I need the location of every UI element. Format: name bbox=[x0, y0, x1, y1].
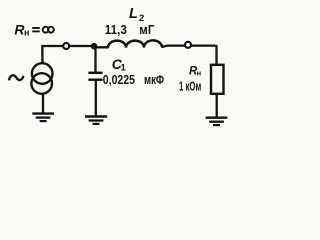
label Rн = ∞ bbox=[14, 22, 29, 38]
ground (capacitor) bbox=[85, 117, 107, 124]
wire capacitor drop bbox=[94, 46, 96, 73]
wire source riser bbox=[41, 46, 43, 64]
ground (source) bbox=[32, 114, 54, 122]
ground (resistor) bbox=[206, 118, 228, 125]
label C1 bbox=[112, 56, 127, 74]
resistor Rн body bbox=[211, 65, 224, 94]
wire resistor drop bbox=[215, 45, 217, 65]
label Rн (load) bbox=[189, 65, 201, 77]
equals sign bbox=[32, 28, 40, 31]
inductor L2 (3 humps) bbox=[108, 40, 162, 47]
label L2 bbox=[129, 6, 144, 24]
capacitor C1 plates bbox=[88, 73, 102, 80]
wire resistor to ground bbox=[216, 94, 218, 117]
wire top rail left (corner to inductor) bbox=[41, 46, 108, 47]
svg-text:L: L bbox=[129, 6, 138, 22]
svg-text:11,3: 11,3 bbox=[105, 22, 127, 37]
tilde (AC sign) bbox=[9, 75, 24, 80]
node terminal (open circle, right) bbox=[185, 42, 191, 48]
source G1 (AC current source, two overlapping circles) bbox=[31, 63, 52, 94]
wire inductor to right corner bbox=[162, 46, 216, 48]
node terminal (open circle, left) bbox=[63, 43, 69, 49]
wire source to ground bbox=[42, 94, 44, 113]
node junction dot bbox=[91, 43, 98, 50]
svg-text:н: н bbox=[197, 69, 202, 78]
svg-text:мГ: мГ bbox=[139, 22, 155, 37]
svg-text:мкФ: мкФ bbox=[144, 72, 164, 87]
infinity symbol bbox=[43, 27, 54, 33]
wire capacitor to ground bbox=[95, 80, 97, 116]
svg-text:н: н bbox=[24, 28, 29, 38]
svg-text:0,0225: 0,0225 bbox=[103, 72, 135, 87]
svg-text:1 кОм: 1 кОм bbox=[179, 79, 201, 93]
